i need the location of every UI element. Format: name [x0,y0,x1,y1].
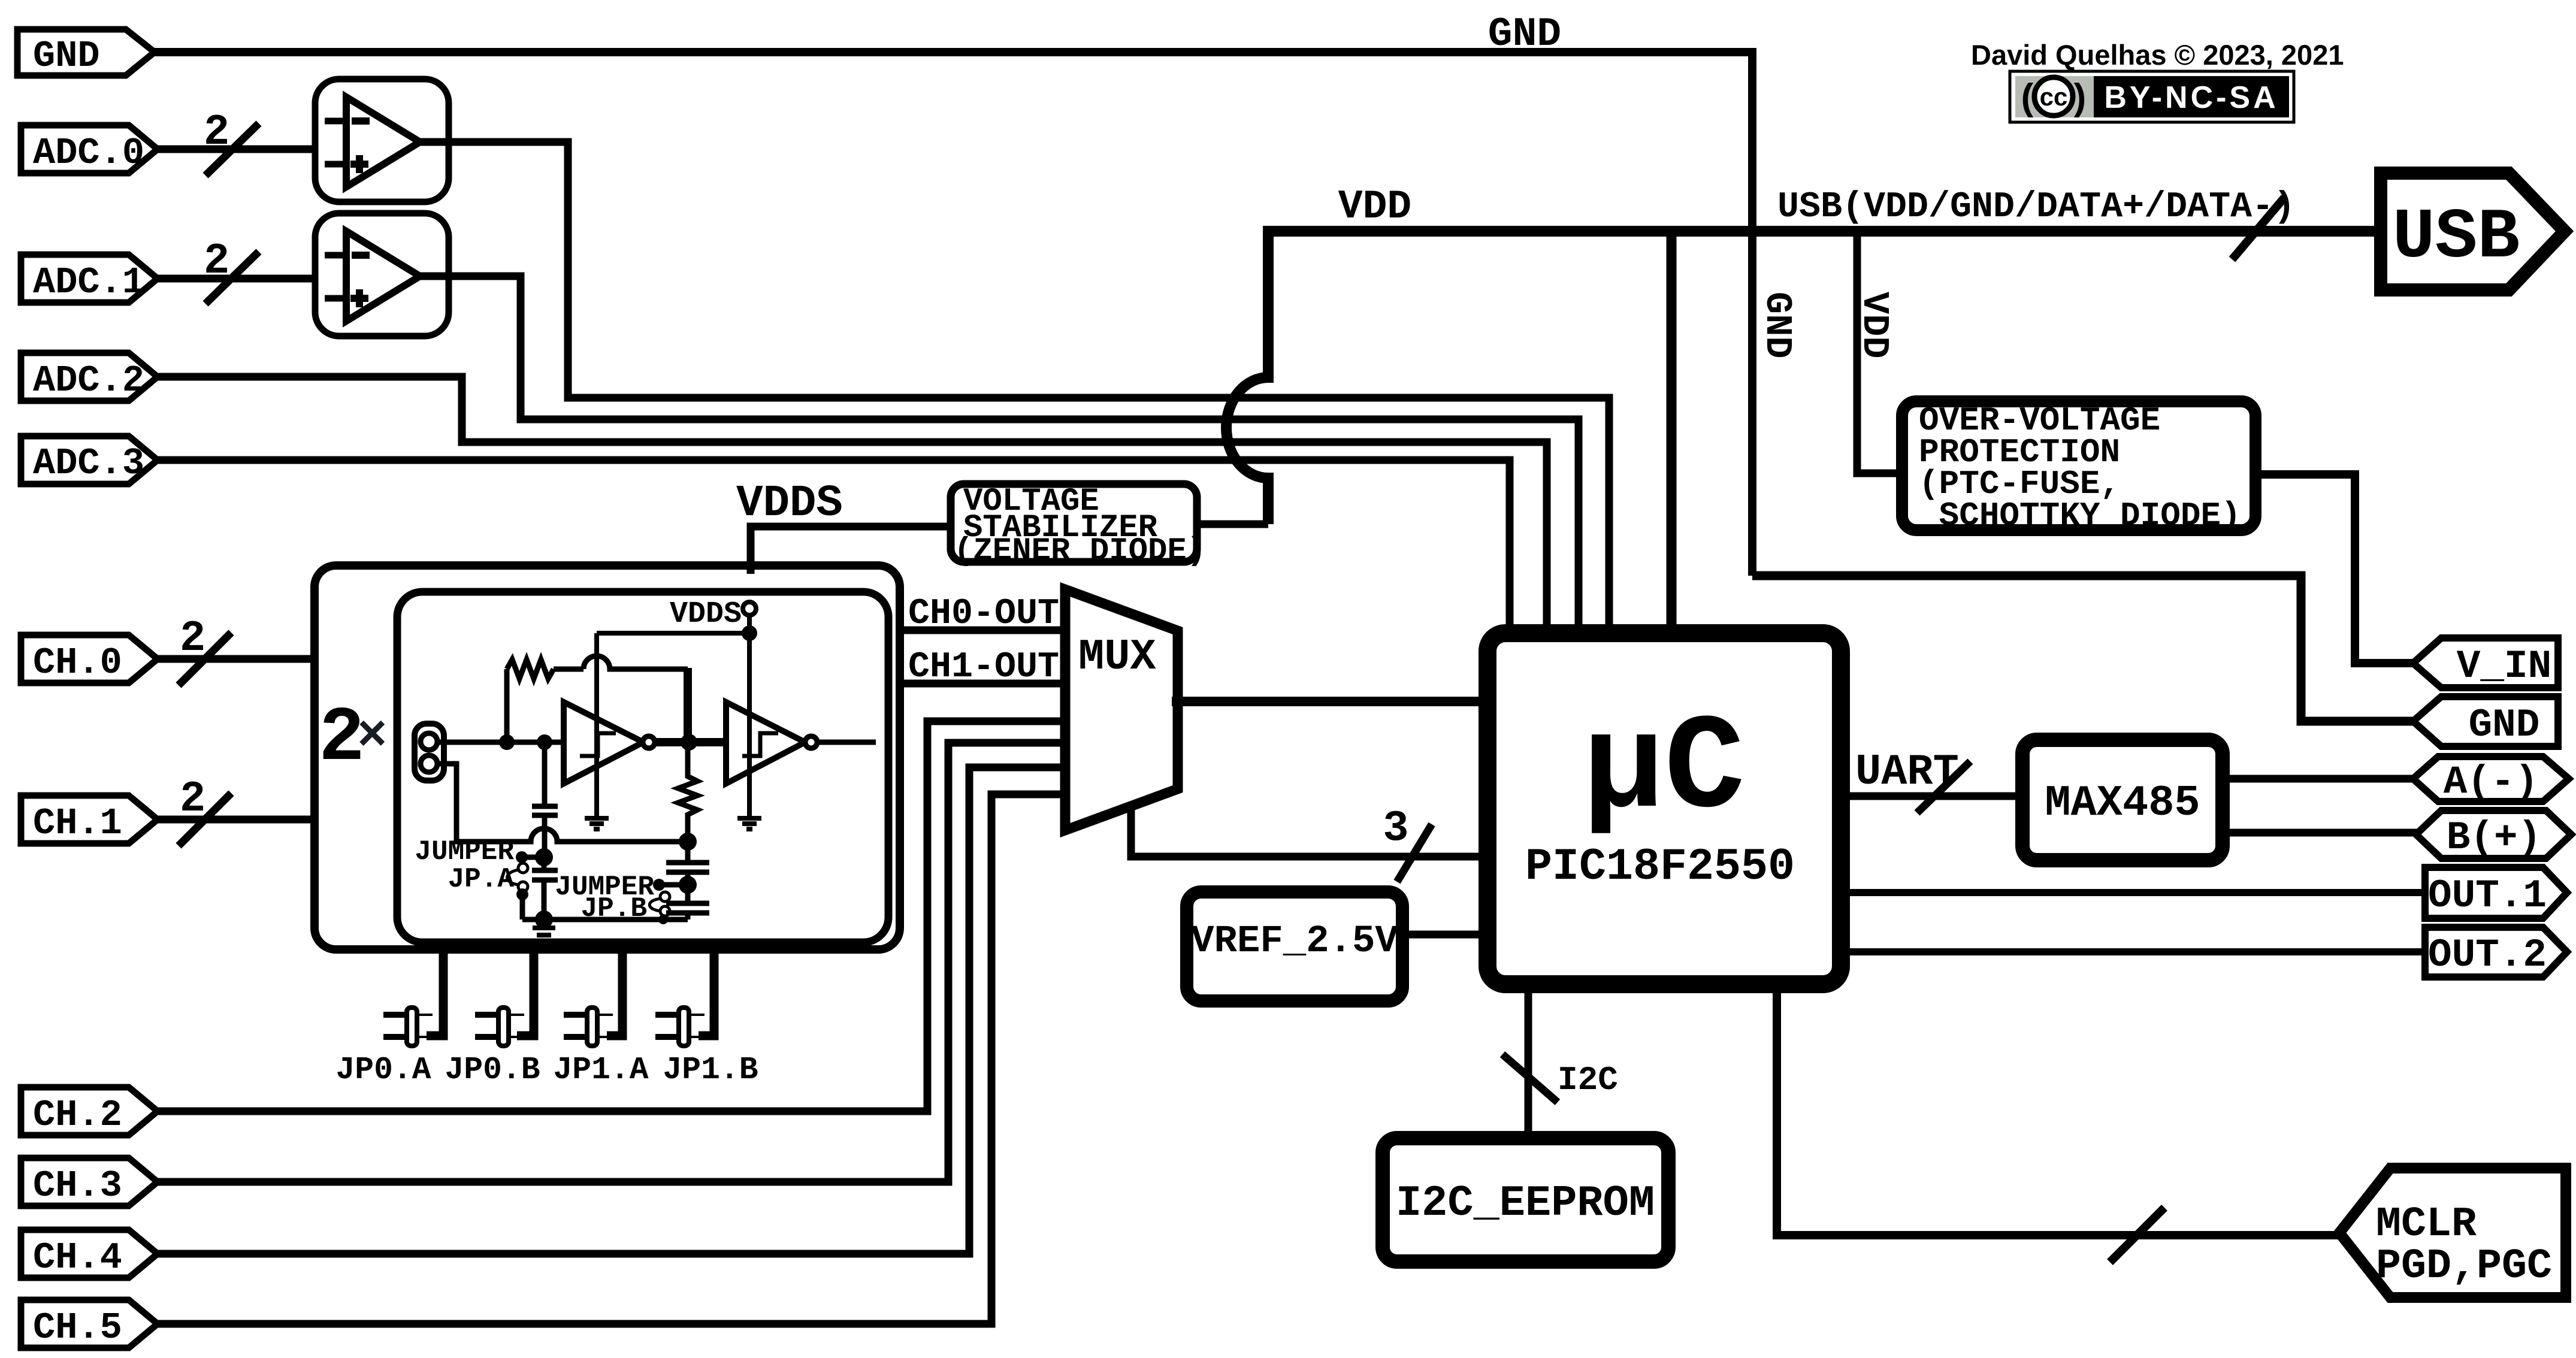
wire stabilizer to VDD vertical [1195,521,1268,528]
op-amp U2 (ADC.1 buffer) box [315,213,449,336]
svg-text:VDD: VDD [1338,184,1411,230]
svg-text:PGD,PGC: PGD,PGC [2376,1243,2552,1290]
svg-text:B(+): B(+) [2447,815,2541,860]
svg-text:V_IN: V_IN [2457,644,2551,689]
wire over-voltage protection to V_IN [2254,474,2420,663]
junction dot node C (top of JP.A) [535,848,553,866]
capacitor C3 [666,842,709,885]
wire ADC.1 tag to op-amp U2 [158,275,313,283]
node ADC.3 (input tag) [21,436,158,484]
wire hop feedback over power rail [583,656,688,669]
wire VDDS from channel box to stabilizer [751,527,954,574]
power rail VDDS vertical (through T2 to ground) [747,615,752,818]
svg-text:JP1.A: JP1.A [553,1052,648,1088]
op-amp U1 minus sign [352,117,370,125]
capacitor C1 [532,742,558,857]
svg-text:CH.1: CH.1 [33,802,122,845]
wire CH0-OUT channel box to MUX [900,627,1065,634]
ground (bottom node) [533,920,555,941]
svg-text:MCLR: MCLR [2376,1201,2477,1248]
wire bottom node [522,917,688,923]
svg-text:CH0-OUT: CH0-OUT [908,594,1059,634]
block MUX (analog multiplexer) [1065,589,1178,830]
svg-text:PIC18F2550: PIC18F2550 [1525,842,1795,893]
svg-text:USB: USB [2393,198,2520,278]
wire UART uC to MAX485 [1839,793,2025,800]
wire op-amp U2 output to uC pin RA1 [420,276,1579,636]
ground (T1) [585,818,609,829]
resistor R2 (divider, vertical) [678,742,697,842]
node GND (right tag) [2413,697,2558,746]
connector USB (external) [2381,173,2565,290]
svg-text:×: × [357,709,387,766]
node B(+) (right tag) [2416,810,2571,858]
svg-text:ADC.2: ADC.2 [33,359,144,402]
svg-text:JP1.B: JP1.B [663,1052,758,1088]
wire I2C from uC to EEPROM [1525,982,1532,1141]
resistor R1 (feedback) [507,660,583,742]
bus slash I2C [1502,1054,1558,1102]
wire uC to OUT.2 [1839,948,2432,955]
schmitt trigger T1 [564,702,643,784]
junction dot input node B [537,734,552,750]
wire J1 pin1 to Schmitt trigger T1 input [437,740,564,745]
bus slash MCLR [2110,1208,2164,1262]
node CH.0 (input tag) [21,635,158,683]
wire CH.3 to MUX [158,743,1065,1182]
svg-text:(ZENER DIODE): (ZENER DIODE) [954,533,1206,570]
svg-text:JP0.A: JP0.A [335,1052,431,1088]
wire CH.4 to MUX [158,767,1065,1254]
node CH.1 (input tag) [21,796,158,843]
svg-text:BY-NC-SA: BY-NC-SA [2104,80,2278,115]
wire VREF to uC [1405,931,1490,939]
svg-text:VREF_2.5V: VREF_2.5V [1191,920,1398,963]
node ADC.1 (input tag) [21,255,158,303]
op-amp U1 (ADC.0 buffer) box [315,79,449,202]
ground (T2) [737,818,761,829]
block VREF_2.5V [1187,892,1402,1001]
wire T2 output [817,740,876,745]
op-amp U1 plus sign [350,155,368,173]
op-amp U1 minus input stub [325,118,346,125]
svg-text:2: 2 [204,108,229,157]
power rail T1/T2 vertical (through T1 to ground) [594,633,599,818]
wire USB/VDD bus with hop over ADC lines [1226,231,2380,524]
svg-text:ADC.1: ADC.1 [33,261,144,304]
jumper JP.A pads and bridge [522,855,544,860]
jumper JP0.B (header with cap) [475,949,534,1046]
svg-text:GND: GND [1488,11,1561,58]
svg-text:3: 3 [1383,804,1408,853]
bus slash USB [2232,198,2284,259]
svg-text:): ) [2074,77,2087,118]
node CH.5 (input tag) [21,1300,158,1348]
wire MUX output to uC [1172,697,1490,706]
svg-text:2: 2 [204,237,229,286]
op-amp U1 plus input stub [325,161,346,168]
svg-text:OUT.1: OUT.1 [2428,873,2547,918]
svg-text:CH.2: CH.2 [33,1094,122,1136]
svg-text:OUT.2: OUT.2 [2428,933,2547,978]
wire GND to right side tags [1752,576,2420,721]
node CH.3 (input tag) [21,1158,158,1206]
svg-text:µC: µC [1583,694,1745,846]
wire VDD branch to uC [1667,231,1677,636]
jumper JP1.A (header with cap) [564,949,622,1046]
wire power rail horizontal [597,631,749,636]
node V_IN (right tag) [2413,638,2558,688]
block MAX485 transceiver [2022,740,2223,860]
node GND (left input tag) [17,29,155,75]
svg-text:CH.0: CH.0 [33,642,122,684]
node OUT.2 (right tag) [2425,927,2567,977]
svg-text:(: ( [2021,77,2034,118]
node ADC.0 (input tag) [21,125,158,173]
bus slash UART [1917,761,1970,813]
bus slash select [1397,824,1432,882]
block inner channel schematic box [397,592,888,942]
node MCLR PGD,PGC (programming tag) [2339,1168,2566,1297]
jumper JP0.A (header with cap) [383,949,443,1046]
svg-text:I2C_EEPROM: I2C_EEPROM [1396,1179,1655,1228]
svg-text:MAX485: MAX485 [2045,779,2200,828]
wire feedback corner down to T1 output node [684,668,692,742]
svg-text:JP.A: JP.A [448,864,515,895]
block VOLTAGE STABILIZER (ZENER DIODE) [951,484,1197,562]
node CH.4 (input tag) [21,1230,158,1278]
node A(-) (right tag) [2413,757,2569,802]
junction dot input node A [499,734,515,750]
node ADC.2 (input tag) [21,353,158,401]
wire CH.5 to MUX [158,794,1065,1324]
svg-text:2: 2 [180,614,205,663]
junction dot bottom node [535,911,553,928]
capacitor C4 [666,885,709,920]
svg-text:VDDS: VDDS [670,597,742,631]
svg-text:GND: GND [33,35,100,77]
bus slash CH.1 [179,793,231,846]
junction dot node E (JP.B tap) [679,876,697,894]
jumper JP.B pads and bridge [659,882,688,888]
wire VDD branch to over-voltage protection [1857,231,1905,473]
svg-text:ADC.0: ADC.0 [33,132,144,174]
svg-text:VDDS: VDDS [736,479,843,529]
wire T1 output to T2 input [655,738,726,746]
svg-text:CH.3: CH.3 [33,1165,122,1207]
svg-text:MUX: MUX [1078,633,1156,682]
badge CC BY-NC-SA [2010,71,2294,122]
wire MAX485 to A(-) [2220,775,2420,783]
svg-text:I2C: I2C [1558,1061,1618,1099]
bus slash ADC.0 [205,123,259,176]
svg-text:CH.4: CH.4 [33,1236,122,1279]
svg-text:A(-): A(-) [2444,760,2538,804]
node OUT.1 (right tag) [2425,867,2567,918]
wire MUX select bus (3) from uC [1131,806,1490,857]
svg-text:ADC.3: ADC.3 [33,442,144,485]
svg-text:JUMPER: JUMPER [415,836,514,867]
wire op-amp U1 output to uC pin RA0 [420,142,1609,636]
wire CH.0 tag to channel box [158,655,315,663]
wire uC to OUT.1 [1839,889,2432,896]
svg-text:GND: GND [2469,703,2540,748]
wire ADC.3 to uC pin RA3 [158,460,1510,636]
op-amp U2 plus input stub [325,295,346,302]
microcontroller U3 uC box [1487,633,1841,984]
svg-text:JP0.B: JP0.B [445,1052,540,1088]
bus slash ADC.1 [205,252,259,304]
op-amp U2 minus sign [352,252,370,259]
block OVER-VOLTAGE PROTECTION [1902,401,2255,530]
wire J1 pin2 to cap node (with hop over C1 leg) [437,764,688,842]
junction dot node D (caps chain top) [679,833,697,851]
connector J1 (2-pin input header) [415,724,444,781]
svg-text:JP.B: JP.B [581,893,647,924]
svg-text:David Quelhas © 2023, 2021: David Quelhas © 2023, 2021 [1971,39,2344,71]
wire ADC.2 to uC pin RA2 [158,377,1547,636]
wire MCLR/PGD/PGC from uC to programming tag [1777,982,2348,1235]
wire CH1-OUT channel box to MUX [900,680,1065,688]
bus slash CH.0 [179,633,231,685]
wire GND bus from tag across top [151,52,1752,576]
svg-text:cc: cc [2040,83,2068,111]
svg-text:SCHOTTKY DIODE): SCHOTTKY DIODE) [1919,497,2241,535]
schmitt trigger T2 [726,702,805,784]
terminal VDDS (open circle) [743,602,756,615]
node CH.2 (input tag) [21,1087,158,1135]
wire CH.2 to MUX [158,721,1065,1111]
jumper JP1.B (header with cap) [655,949,714,1046]
op-amp U2 plus sign [350,289,368,307]
junction dot VDDS rail [742,625,757,641]
svg-text:USB(VDD/GND/DATA+/DATA-): USB(VDD/GND/DATA+/DATA-) [1777,187,2295,228]
svg-text:CH.5: CH.5 [33,1306,122,1349]
wire CH.1 tag to channel box [158,816,315,824]
junction dot T1 output node [681,734,697,751]
wire ADC.0 tag to op-amp U1 [158,146,313,153]
svg-text:CH1-OUT: CH1-OUT [908,647,1059,688]
op-amp U2 minus input stub [325,252,346,259]
block I2C_EEPROM [1383,1138,1668,1262]
op-amp U2 triangle [346,231,420,321]
block 2x channel conditioning outer box [315,565,900,949]
svg-text:2: 2 [180,775,205,824]
wire MAX485 to B(+) [2220,829,2423,837]
capacitor C2 [532,857,558,920]
svg-text:GND: GND [1756,292,1798,359]
op-amp U1 triangle [346,97,420,187]
